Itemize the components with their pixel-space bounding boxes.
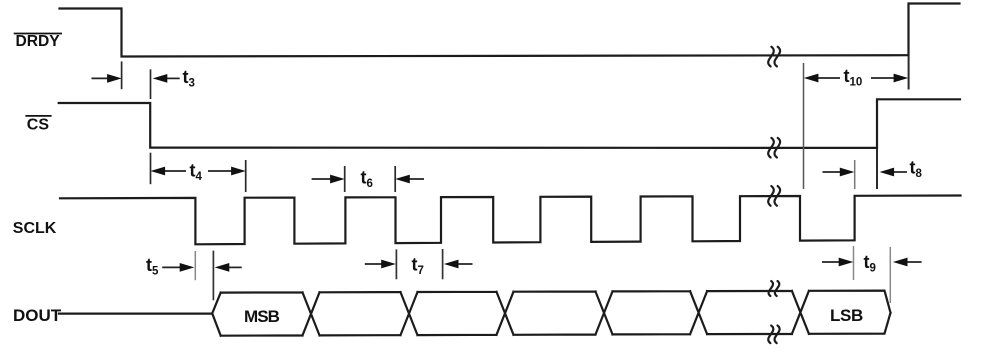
svg-text:t5: t5 [146, 255, 159, 278]
svg-text:t7: t7 [412, 254, 424, 277]
svg-text:t3: t3 [183, 67, 195, 90]
svg-text:t10: t10 [844, 66, 863, 89]
svg-text:t6: t6 [361, 168, 373, 191]
svg-text:CS: CS [27, 116, 50, 133]
svg-text:t4: t4 [190, 161, 203, 184]
svg-text:SCLK: SCLK [13, 220, 57, 237]
svg-text:DRDY: DRDY [16, 33, 61, 50]
svg-text:DOUT: DOUT [13, 306, 62, 325]
svg-text:t8: t8 [910, 158, 923, 181]
svg-text:MSB: MSB [244, 307, 280, 326]
svg-text:t9: t9 [864, 252, 876, 275]
svg-text:LSB: LSB [830, 306, 863, 325]
